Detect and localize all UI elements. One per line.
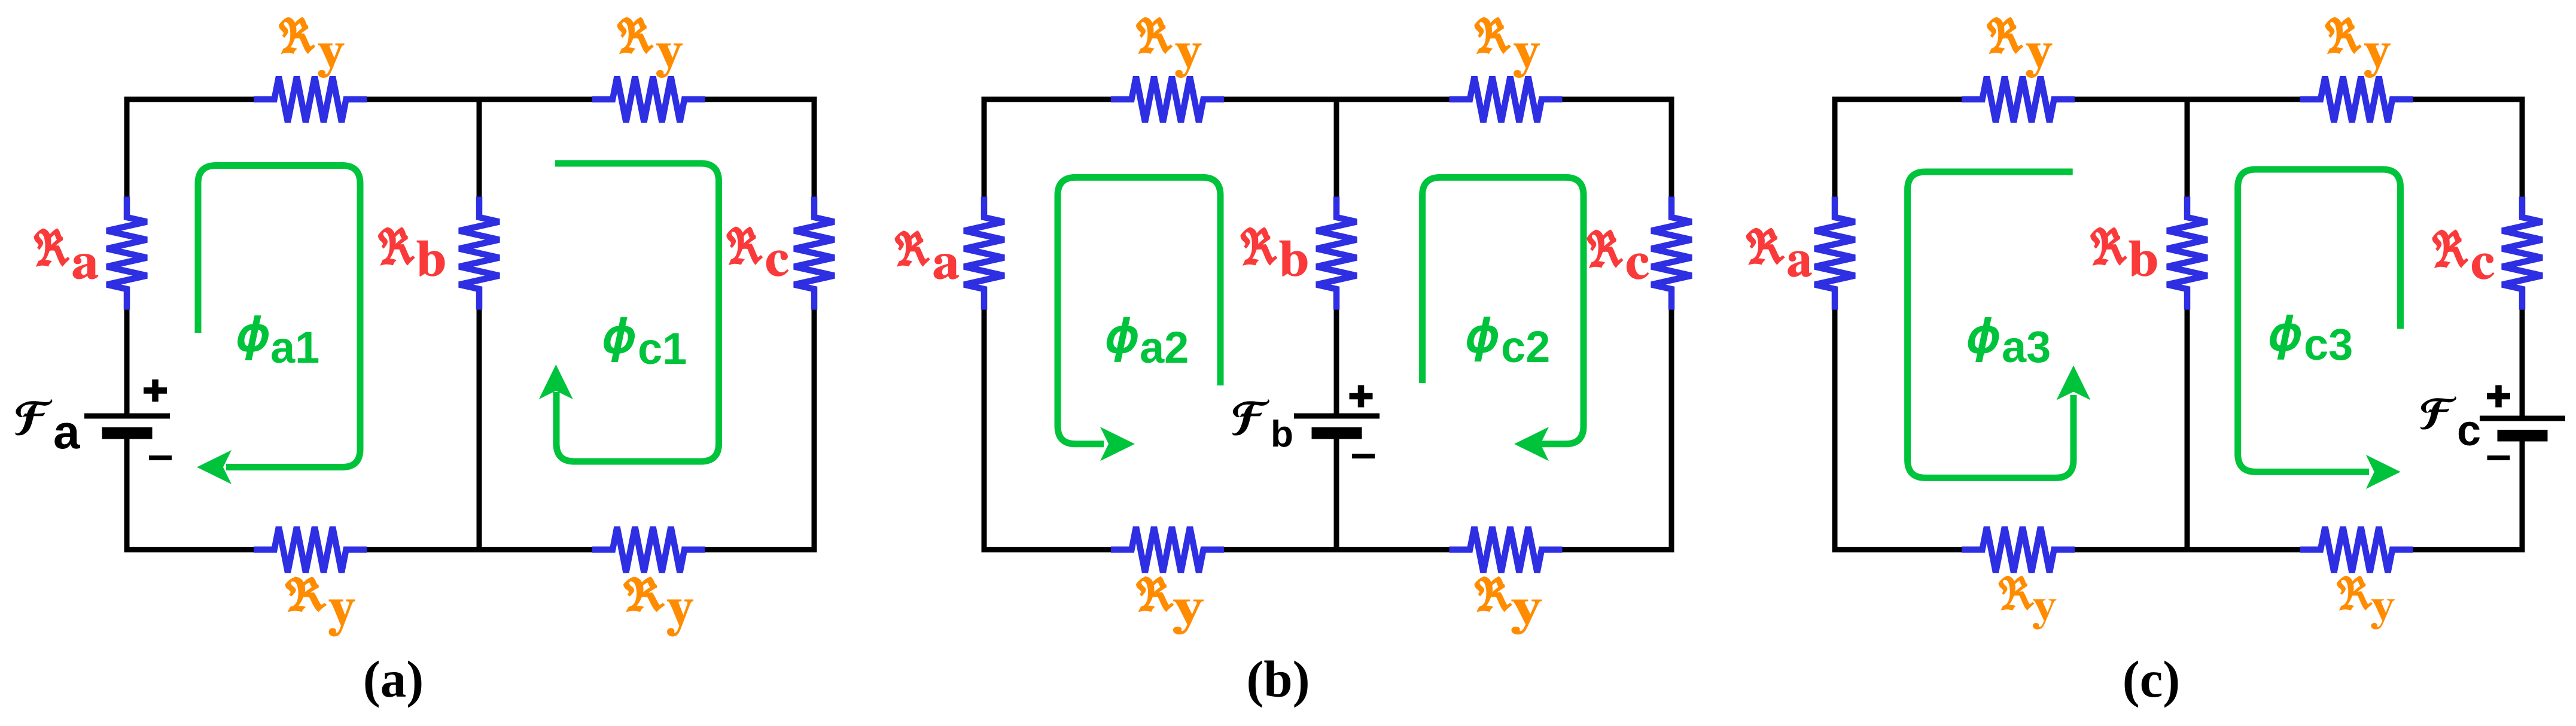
battery short plate (-) <box>2498 430 2548 442</box>
resistor Ry top-left of (b) <box>1111 77 1224 122</box>
resistor Ry bottom-right of (c) <box>2300 527 2413 572</box>
wire top-right <box>2413 97 2525 102</box>
wire mid branch upper <box>1334 99 1339 197</box>
label Ra (red) <box>895 231 959 279</box>
resistor Ry bottom-left of (c) <box>1962 527 2075 572</box>
label phi_a2 <box>1107 317 1189 372</box>
reluctance label Ry (y subscript) <box>2365 44 2391 77</box>
reluctance label Ry (y subscript) <box>329 600 355 636</box>
resistor Rb of (a) <box>459 197 500 310</box>
resistor Rb of (b) <box>1317 197 1357 310</box>
wire top-left <box>1832 97 1962 102</box>
label Rc (red) <box>2432 230 2494 279</box>
svg-text:a2: a2 <box>1140 323 1189 372</box>
reluctance label Ry (y subscript) <box>657 44 683 77</box>
reluctance label Ry (R glyph) <box>285 577 326 612</box>
svg-text:(b): (b) <box>1246 650 1310 708</box>
arrowhead of phi_a2 (points right) <box>1100 427 1135 461</box>
flux loop phi_c3 <box>2238 169 2401 472</box>
arrowhead of phi_a1 (points left) <box>197 450 232 484</box>
arrowhead of phi_c2 (points left) <box>1514 427 1549 461</box>
reluctance label Ry (R glyph) <box>624 577 665 612</box>
wire mid branch lower <box>2185 310 2190 550</box>
label Ra (red) <box>34 229 98 279</box>
reluctance label Ry (R glyph) <box>1475 576 1512 611</box>
battery Fb <box>1294 385 1380 457</box>
battery short plate (-) <box>1312 427 1362 439</box>
reluctance label Ry (y subscript) <box>1176 44 1201 77</box>
plus sign <box>152 379 159 402</box>
wire right branch upper <box>1669 99 1674 197</box>
battery Fa <box>84 379 172 458</box>
wire right branch upper <box>2520 99 2525 197</box>
wire bottom-right <box>705 547 817 552</box>
reluctance label Ry (R glyph) <box>1136 17 1172 54</box>
svg-text:(c): (c) <box>2123 650 2181 708</box>
resistor Rc of (c) <box>2502 197 2542 310</box>
svg-text:b: b <box>1271 414 1293 455</box>
wire mid branch lower (above battery) <box>1334 310 1339 417</box>
wire left branch upper <box>982 99 987 197</box>
battery Fc <box>2480 385 2565 458</box>
arrowhead of phi_a3 (points up) <box>2057 366 2091 400</box>
wire left branch lower (above battery) <box>124 310 130 417</box>
wire bottom-right <box>2413 547 2525 552</box>
svg-text:(a): (a) <box>363 650 424 708</box>
label phi_c2 <box>1467 317 1550 372</box>
label phi_c3 <box>2270 315 2353 369</box>
label Fc <box>2421 397 2481 455</box>
label Ra (red) <box>1746 228 1811 277</box>
battery long plate (+) <box>1294 414 1380 419</box>
wire left branch lower <box>1832 310 1838 550</box>
flux loop phi_a3 <box>1908 172 2073 478</box>
minus sign <box>149 455 172 460</box>
reluctance label Ry (y subscript) <box>1512 600 1542 634</box>
svg-text:a1: a1 <box>270 323 319 372</box>
wire bottom-left <box>982 547 1112 552</box>
label Rc (red) <box>1587 230 1649 279</box>
battery long plate (+) <box>84 414 170 419</box>
label phi_a1 <box>237 315 319 372</box>
resistor Ry bottom-left of (b) <box>1111 527 1224 572</box>
flux loop phi_c1 <box>555 163 719 461</box>
flux loop phi_a2 <box>1058 177 1220 444</box>
wire left branch upper <box>124 99 130 197</box>
reluctance label Ry (R glyph) <box>617 17 653 54</box>
battery short plate (-) <box>102 427 153 439</box>
resistor Rb of (c) <box>2167 197 2207 310</box>
resistor Ry top-right of (b) <box>1450 77 1563 122</box>
plus sign <box>1358 385 1365 408</box>
label Fa <box>16 400 80 458</box>
battery long plate (+) <box>2480 416 2565 421</box>
label phi_c1 <box>604 317 687 373</box>
resistor Ry bottom-left of (a) <box>254 527 367 572</box>
plus sign <box>2495 385 2502 408</box>
wire mid branch lower <box>477 310 482 550</box>
reluctance label Ry (R glyph) <box>1475 17 1511 54</box>
resistor Ry top-right of (c) <box>2300 77 2413 122</box>
wire bottom-left <box>1832 547 1962 552</box>
reluctance label Ry (y subscript) <box>668 600 693 636</box>
resistor Ra of (a) <box>107 197 147 310</box>
svg-text:c: c <box>2457 407 2481 455</box>
label Rb (red) <box>2091 227 2157 276</box>
wire right branch lower (below battery) <box>2520 441 2525 549</box>
reluctance label Ry (y subscript) <box>318 44 344 77</box>
wire right branch lower <box>812 310 817 550</box>
resistor Ry bottom-right of (b) <box>1450 527 1563 572</box>
arrowhead of phi_c1 (points up) <box>539 364 573 399</box>
wire top-right <box>1563 97 1674 102</box>
label phi_a3 <box>1968 317 2051 372</box>
wire top-left <box>124 97 254 102</box>
reluctance label Ry (y subscript) <box>2033 599 2057 629</box>
reluctance label Ry (R glyph) <box>2337 576 2373 610</box>
reluctance label Ry (R glyph) <box>279 17 315 54</box>
reluctance label Ry (y subscript) <box>1514 44 1540 77</box>
wire left branch lower (below battery) <box>124 439 130 549</box>
arrowhead of phi_c3 (points right) <box>2366 455 2401 489</box>
svg-text:c1: c1 <box>638 324 687 373</box>
wire right branch lower (above battery) <box>2520 310 2525 419</box>
wire top-middle <box>1224 97 1450 102</box>
svg-text:a3: a3 <box>2002 322 2051 372</box>
resistor Ry top-right of (a) <box>592 77 705 122</box>
label Rb (red) <box>1241 227 1307 276</box>
resistor Ra of (b) <box>964 197 1004 310</box>
wire bottom-middle <box>2075 547 2300 552</box>
wire bottom-middle <box>367 547 592 552</box>
flux loop phi_c2 <box>1423 177 1584 444</box>
wire left branch upper <box>1832 99 1838 197</box>
reluctance label Ry (R glyph) <box>1137 576 1174 611</box>
resistor Ry top-left of (c) <box>1962 77 2075 122</box>
label Fb <box>1233 400 1293 455</box>
wire mid branch lower (below battery) <box>1334 439 1339 549</box>
reluctance label Ry (y subscript) <box>2026 44 2052 77</box>
resistor Ra of (c) <box>1815 197 1855 310</box>
wire left branch lower <box>982 310 987 550</box>
svg-text:c2: c2 <box>1501 322 1550 372</box>
resistor Rc of (b) <box>1652 197 1692 310</box>
wire bottom-middle <box>1224 547 1450 552</box>
resistor Ry bottom-right of (a) <box>592 527 705 572</box>
wire top-middle <box>2075 97 2300 102</box>
reluctance label Ry (y subscript) <box>1173 600 1203 634</box>
wire bottom-right <box>1563 547 1674 552</box>
reluctance label Ry (R glyph) <box>2325 17 2361 54</box>
reluctance label Ry (y subscript) <box>2371 599 2395 629</box>
wire top-left <box>982 97 1112 102</box>
minus sign <box>1352 454 1375 458</box>
wire top-middle <box>367 97 592 102</box>
wire mid branch upper <box>2185 99 2190 197</box>
minus sign <box>2487 455 2510 460</box>
wire right branch lower <box>1669 310 1674 550</box>
label Rc (red) <box>727 227 788 276</box>
flux loop phi_a1 <box>198 166 360 467</box>
svg-text:c3: c3 <box>2304 320 2353 369</box>
reluctance label Ry (R glyph) <box>1987 17 2023 54</box>
svg-text:a: a <box>53 405 80 458</box>
wire top-right <box>705 97 817 102</box>
resistor Ry top-left of (a) <box>254 77 367 122</box>
wire mid branch upper <box>477 99 482 197</box>
label Rb (red) <box>378 227 444 276</box>
reluctance label Ry (R glyph) <box>1998 576 2034 610</box>
resistor Rc of (a) <box>794 197 835 310</box>
wire right branch upper <box>812 99 817 197</box>
wire bottom-left <box>124 547 254 552</box>
